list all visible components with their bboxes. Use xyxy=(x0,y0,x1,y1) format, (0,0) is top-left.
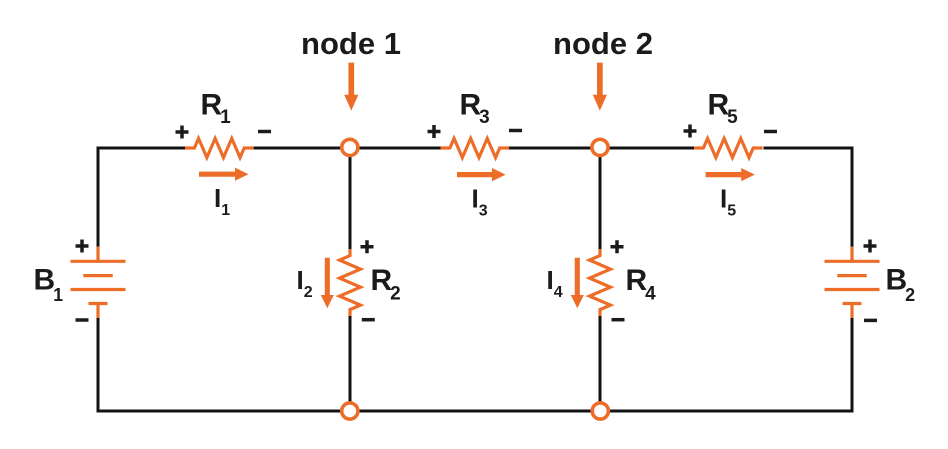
wire R5 to B2 top xyxy=(764,148,853,247)
svg-text:R2: R2 xyxy=(371,264,401,305)
node 1 pointer arrow xyxy=(344,63,358,111)
svg-text:B2: B2 xyxy=(886,264,916,306)
svg-text:R1: R1 xyxy=(201,89,232,129)
plus R2 xyxy=(361,240,374,253)
resistor R5 xyxy=(694,138,763,157)
current arrow I1 xyxy=(199,168,249,181)
current arrow I3 xyxy=(457,168,506,181)
resistor R3 xyxy=(441,138,510,157)
plus R5 xyxy=(684,125,697,138)
minus R2 xyxy=(362,318,375,322)
minus R1 xyxy=(258,130,271,134)
wire top-left (B1 top to R1) xyxy=(98,148,185,247)
svg-text:I5: I5 xyxy=(720,184,736,220)
polarity signs xyxy=(76,125,878,321)
battery B1 xyxy=(71,247,126,318)
wire B1 bottom to bottom rail xyxy=(98,318,350,411)
minus R3 xyxy=(509,129,522,133)
node 2 pointer arrow xyxy=(593,63,607,111)
bottom junction circle under node 2 xyxy=(592,403,608,419)
svg-text:R5: R5 xyxy=(708,89,739,129)
minus R4 xyxy=(612,318,625,322)
svg-text:R4: R4 xyxy=(626,264,657,305)
current arrow I2 xyxy=(321,258,334,308)
node 1 junction circle (top) xyxy=(342,139,358,155)
svg-text:I3: I3 xyxy=(472,184,488,220)
svg-text:node 2: node 2 xyxy=(553,26,653,61)
wire R2 to bottom node xyxy=(349,316,352,411)
plus R1 xyxy=(176,126,189,139)
wire node 2 to R4 xyxy=(599,148,602,249)
wire R4 to bottom node xyxy=(599,316,602,411)
resistor R2 xyxy=(340,249,361,316)
wire bottom rail node to node xyxy=(350,410,600,413)
wire node 2 to R5 xyxy=(600,147,694,150)
battery B2 xyxy=(825,247,880,318)
svg-text:I1: I1 xyxy=(214,183,230,219)
plus R4 xyxy=(611,240,624,253)
current arrow I4 xyxy=(571,258,584,308)
current arrow I5 xyxy=(706,168,755,181)
wire bottom rail to B2 bottom xyxy=(600,318,852,411)
resistor R4 xyxy=(590,249,611,316)
svg-text:node 1: node 1 xyxy=(301,26,401,61)
wire node 1 to R2 xyxy=(349,148,352,249)
minus B1 xyxy=(76,318,89,322)
minus B2 xyxy=(864,319,877,323)
wire node 1 to R3 xyxy=(350,147,441,150)
svg-text:B1: B1 xyxy=(34,264,64,306)
node 2 junction circle (top) xyxy=(592,139,608,155)
bottom junction circle under node 1 xyxy=(342,403,358,419)
resistor R1 xyxy=(185,138,254,157)
minus R5 xyxy=(764,130,777,134)
wire R3 to node 2 xyxy=(509,147,601,150)
plus R3 xyxy=(428,125,441,138)
wire R1 to node 1 xyxy=(254,147,350,150)
plus B1 xyxy=(76,240,89,253)
svg-text:I4: I4 xyxy=(547,265,563,301)
plus B2 xyxy=(864,240,877,253)
svg-text:R3: R3 xyxy=(460,89,490,129)
svg-text:I2: I2 xyxy=(297,265,313,301)
